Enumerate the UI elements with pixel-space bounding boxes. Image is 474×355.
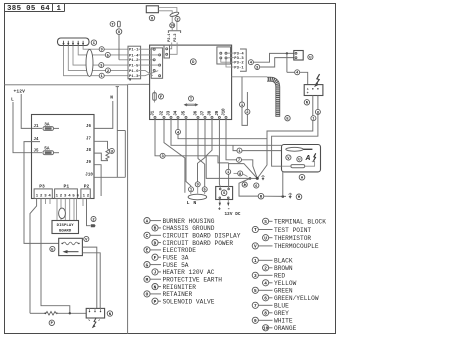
reigniter N label right [304,100,309,105]
wire J9 to terminal block [218,120,221,187]
svg-text:BURNER HOUSING: BURNER HOUSING [163,218,215,225]
wires bracket to pins with crossing [138,48,153,50]
cable sheath slanted [170,11,180,17]
svg-text:+: + [307,92,309,96]
spark gap [93,318,97,328]
legend item 3: wire red [252,272,258,278]
board right connector box [217,47,231,64]
wire chassis vertical [116,87,118,178]
wires pins to P3 labels [227,52,234,54]
svg-text:+: + [218,207,221,213]
electrode / thermocouple box [59,238,83,255]
junction solenoid/igniter [69,312,71,314]
svg-text:P3-1: P3-1 [234,66,244,70]
wire junction to ground run [239,178,258,196]
svg-text:J7: J7 [86,137,92,141]
svg-text:1: 1 [254,259,257,264]
wire color 3 [99,63,104,68]
fuse F label [159,94,164,99]
heater element [291,165,305,168]
wire burner box to ground [282,172,284,197]
svg-text:3A: 3A [44,122,50,127]
svg-text:ORANGE: ORANGE [274,325,297,332]
svg-text:J7: J7 [200,110,205,115]
svg-text:PROTECTIVE EARTH: PROTECTIVE EARTH [163,277,223,284]
svg-text:B: B [154,227,157,232]
junction dot [249,177,252,180]
legend item O: retainer [144,291,150,297]
wire J7 [198,120,206,182]
svg-text:BLACK: BLACK [274,258,293,265]
svg-text:P: P [154,300,157,305]
thermistor U label right [308,54,313,59]
svg-text:P2-2: P2-2 [174,34,178,42]
svg-text:T: T [254,228,257,233]
protective earth M label [296,194,302,200]
svg-text:DISPLAY: DISPLAY [57,224,75,228]
svg-text:1 2 3 4: 1 2 3 4 [36,195,52,199]
svg-text:5: 5 [254,289,257,294]
svg-text:YELLOW: YELLOW [274,280,297,287]
svg-text:C: C [146,234,149,239]
svg-text:J5: J5 [34,149,40,153]
svg-text:CIRCUIT BOARD POWER: CIRCUIT BOARD POWER [163,240,234,247]
svg-text:P1-6: P1-6 [129,70,139,74]
legend item C: circuit board display [144,232,150,238]
svg-text:O: O [146,293,149,298]
legend item G: fuse 5A [144,262,150,268]
svg-text:A: A [305,155,311,163]
wire J2 [164,120,185,193]
wire color 9 heater N [195,182,200,187]
svg-text:J2: J2 [159,110,164,115]
svg-text:THERMOCOUPLE: THERMOCOUPLE [274,243,319,250]
circuit board display box [52,221,79,234]
svg-text:J1: J1 [150,110,155,115]
wire J4 yellow [177,120,179,130]
svg-text:J10: J10 [221,108,226,116]
svg-text:J8: J8 [207,110,212,115]
legend item V: thermocouple [252,243,258,249]
svg-text:1: 1 [57,5,62,13]
svg-text:RED: RED [274,273,285,280]
wire U to P1-2 [118,34,120,59]
svg-text:A: A [146,219,149,224]
svg-text:CHASSIS GROUND: CHASSIS GROUND [163,225,215,232]
wire color 5 [202,187,207,192]
svg-text:FUSE 5A: FUSE 5A [163,262,189,269]
legend item 5: wire green [252,287,258,293]
svg-text:10: 10 [263,327,269,332]
squiggle heater wire [62,242,79,245]
svg-text:J1: J1 [34,125,40,129]
wire J10 blue [226,120,237,160]
solenoid P label [49,320,54,325]
svg-text:BOARD: BOARD [59,229,72,233]
svg-text:8: 8 [264,312,267,317]
svg-text:J6: J6 [86,125,92,129]
thermistor U label top [149,15,154,20]
svg-text:J9: J9 [215,110,220,115]
svg-text:GREEN: GREEN [274,288,293,295]
svg-text:P1-2: P1-2 [129,59,139,63]
wire color 5 [105,52,110,57]
svg-text:RETAINER: RETAINER [163,291,193,298]
wire J5 [186,120,191,187]
circuit board power D label [190,59,196,65]
svg-text:GREY: GREY [274,310,289,317]
svg-text:J10: J10 [85,173,93,177]
terminal block S [216,187,233,200]
thermistor U zigzag [94,141,108,149]
wire color 8 [315,109,320,114]
svg-text:P3-3: P3-3 [234,57,244,61]
svg-text:ELECTRODE: ELECTRODE [163,247,197,254]
svg-text:5A: 5A [44,147,50,152]
cable sheath ellipse heater [188,194,207,200]
wire color 2 [106,68,111,73]
wires display connector to P1 [83,46,128,50]
thermocouple probe [286,147,303,151]
svg-text:N: N [154,285,157,290]
svg-text:WHITE: WHITE [274,318,293,325]
wire color 9 [99,47,104,52]
svg-text:L: L [11,97,14,103]
svg-text:J6: J6 [193,110,198,115]
wire J6 to N [94,101,113,128]
wire J4 to electrode box [24,142,59,244]
svg-text:J8: J8 [86,149,92,153]
svg-text:4: 4 [264,282,267,287]
svg-text:M: M [146,278,149,283]
junction dot ground [282,195,285,198]
fuse cartridge [118,21,121,27]
wire color 1 heater L [189,187,194,192]
svg-text:P2-1: P2-1 [168,33,172,42]
wire color 4 [248,60,253,65]
legend item S: terminal block [263,218,269,224]
svg-text:THERMISTOR: THERMISTOR [274,235,311,242]
svg-text:J5: J5 [181,110,186,115]
legend item A: burner housing [144,218,150,224]
wire J1 black [155,120,160,156]
svg-text:GREEN/YELLOW: GREEN/YELLOW [274,295,319,302]
svg-text:P3-2: P3-2 [234,62,244,66]
supply arrows 12V DC [219,200,221,204]
wire J8 [206,120,250,179]
thermocouple V label [84,236,89,241]
svg-text:P1-1: P1-1 [129,49,139,53]
wire J9 stub [94,165,101,196]
circuit board display C label [91,40,96,45]
svg-text:3: 3 [254,274,257,279]
wires P2 to retainer [82,199,84,207]
wire reigniter to electrode [267,96,313,139]
inner connector P1 pins [151,48,162,78]
display connector C [58,38,90,46]
svg-text:P3-4: P3-4 [234,53,244,57]
svg-text:6: 6 [264,297,267,302]
svg-text:V: V [254,245,257,250]
legend item B: chassis ground [152,225,158,231]
legend item 1: wire black [252,257,258,263]
thermistor U label [109,148,114,153]
wire reigniter to heater [272,96,318,167]
svg-text:SOLENOID VALVE: SOLENOID VALVE [163,299,215,306]
connector P1 labels [128,46,141,79]
svg-text:TEST POINT: TEST POINT [274,227,311,234]
test point T arrow row [242,182,247,187]
circuit board (middle) box [150,45,232,119]
thermistor U box right [294,51,303,61]
legend item 4: wire yellow [263,280,269,286]
svg-text:N: N [110,95,113,101]
thermocouple arrow [261,175,264,180]
wires P1 to display board [56,199,58,221]
retainer spade terminal [91,224,96,227]
wire branch to reigniter [286,53,288,72]
test point T top [110,22,115,27]
svg-text:385 05 64: 385 05 64 [7,5,50,13]
svg-text:7: 7 [254,304,257,309]
svg-text:FUSE 3A: FUSE 3A [163,255,189,262]
legend item N: reigniter [152,284,158,290]
svg-text:P1-3: P1-3 [129,75,139,79]
svg-text:BROWN: BROWN [274,265,293,272]
svg-text:L: L [187,200,190,206]
wire J3 to burner [171,120,282,146]
spark symbol [315,74,320,86]
junction yellow branch [286,52,288,54]
legend item 7: wire blue [252,302,258,308]
reigniter box left [86,308,104,318]
electrode E label [50,246,55,251]
cable sheath ellipse big [86,49,93,76]
legend item D: circuit board power [152,240,158,246]
wire J10 chassis long [94,176,125,178]
svg-text:1 2 3 4 5 6: 1 2 3 4 5 6 [56,195,80,199]
reigniter N label [107,311,112,316]
solenoid valve coil [30,312,46,314]
thermocouple junction [256,177,259,180]
wires P2 into board [171,28,173,31]
legend item T: test point [252,226,258,232]
burner housing A label [299,174,305,180]
wires thermistor to P2 [158,8,177,17]
wires electrode box to igniter [82,247,96,308]
wire color 2 [91,217,96,222]
svg-text:TERMINAL BLOCK: TERMINAL BLOCK [274,219,326,226]
svg-text:J4: J4 [173,110,178,115]
test point T [189,96,194,101]
svg-text:BLUE: BLUE [274,303,289,310]
connector P2 labels top [168,31,180,33]
wire color 1 [226,169,231,174]
svg-text:D: D [154,241,157,246]
legend left column [144,218,241,306]
svg-text:-: - [227,205,230,212]
svg-text:HEATER 120V AC: HEATER 120V AC [163,269,215,276]
thermistor assembly top [146,6,158,13]
chassis ground symbol [288,193,292,199]
wire S to junction [228,163,230,187]
legend item F: fuse 3A [152,254,158,260]
svg-text:S: S [264,220,267,225]
wires P3 down [30,199,37,314]
legend item 9: wire white [252,317,258,323]
wire 3 to thermistor [260,58,294,67]
legend item 2: wire brown [263,265,269,271]
fuse G 5A [43,151,54,155]
wire color 4 [295,70,300,75]
cable sheath ellipse [59,208,66,218]
legend item 8: wire grey [263,310,269,316]
svg-text:12V DC: 12V DC [225,212,241,217]
wire color 1 [311,116,316,121]
svg-text:N: N [193,200,196,206]
legend item 6: wire green/yellow [263,295,269,301]
wire color 2 [175,17,180,22]
svg-text:J9: J9 [86,161,92,165]
wires electrode colors down [241,77,243,102]
legend item J: heater 120V AC [152,269,158,275]
wire L to J5 [13,102,42,153]
svg-text:+12V: +12V [14,89,26,95]
thermistor U label [297,157,302,162]
svg-text:J3: J3 [166,110,171,115]
legend item U: thermistor [263,235,269,241]
chassis ground B label [258,193,264,199]
fuse F vertical [154,91,156,103]
wire into cable [232,76,268,78]
retainer label on cable [285,116,290,121]
svg-text:F: F [154,256,157,261]
thermistor U label [116,29,122,35]
board top connector box [164,45,170,58]
wire color 1 [99,73,104,78]
electrode arrow [66,251,79,253]
fuse F 3A [43,127,54,131]
burner housing A box [282,145,321,172]
svg-text:P1-5: P1-5 [129,65,139,69]
circuit board power D box [32,115,95,199]
electrode cable (hatched) [267,79,278,117]
wire color 8 row [234,172,238,174]
border frame [5,4,336,334]
wire J6 [198,120,205,187]
legend right column [252,218,326,332]
svg-text:G: G [146,263,149,268]
wire color 6 [254,183,259,188]
legend item 10: wire orange [263,325,269,331]
svg-text:P1-4: P1-4 [129,54,139,58]
legend item P: solenoid valve [152,298,158,304]
thermocouple V label [286,155,291,160]
legend item M: protective earth [144,276,150,282]
svg-text:CIRCUIT BOARD DISPLAY: CIRCUIT BOARD DISPLAY [163,233,241,240]
svg-text:1 2: 1 2 [83,195,90,199]
wire 4 to thermistor [253,53,293,62]
svg-text:2: 2 [264,267,267,272]
svg-text:J: J [154,271,157,276]
svg-text:9: 9 [254,319,257,324]
wire +12V to J1 [21,94,42,128]
wire color 10 [170,23,175,28]
connector P3 labels right [240,49,246,71]
legend item E: electrode [144,247,150,253]
svg-text:REIGNITER: REIGNITER [163,284,197,291]
wire color 3 [255,65,260,70]
svg-text:E: E [146,249,149,254]
reigniter box right [304,85,323,96]
svg-text:U: U [264,236,267,241]
